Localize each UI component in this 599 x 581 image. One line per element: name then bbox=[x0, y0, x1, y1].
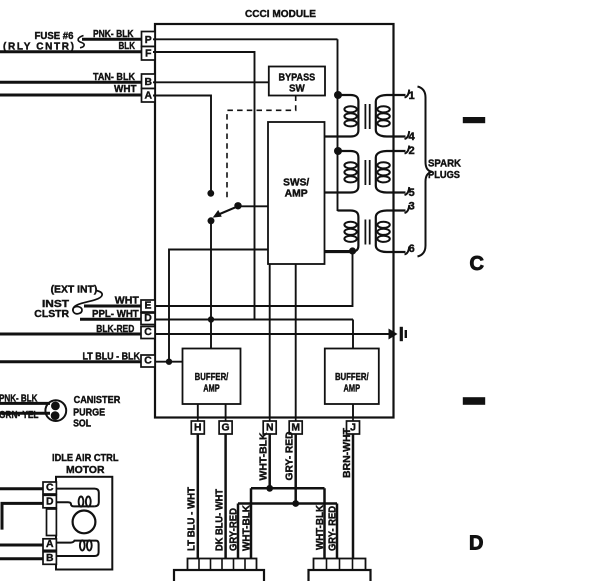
svg-text:BYPASS: BYPASS bbox=[279, 73, 316, 84]
svg-text:5: 5 bbox=[409, 187, 415, 199]
svg-text:GRY- RED: GRY- RED bbox=[327, 506, 338, 551]
svg-text:WHT-BLK: WHT-BLK bbox=[242, 505, 253, 551]
svg-text:2: 2 bbox=[409, 145, 415, 157]
svg-text:C: C bbox=[470, 253, 484, 275]
svg-text:IDLE AIR CTRL: IDLE AIR CTRL bbox=[52, 453, 119, 464]
svg-text:LT BLU - BLK: LT BLU - BLK bbox=[83, 352, 141, 363]
svg-text:(EXT INT): (EXT INT) bbox=[51, 285, 98, 296]
svg-text:BUFFER/: BUFFER/ bbox=[335, 372, 369, 383]
svg-text:GRY- RED: GRY- RED bbox=[284, 432, 295, 481]
svg-text:C: C bbox=[144, 356, 152, 367]
svg-text:C: C bbox=[46, 483, 54, 494]
svg-text:CANISTER: CANISTER bbox=[74, 395, 121, 406]
svg-text:GRY-RED: GRY-RED bbox=[228, 508, 239, 551]
svg-text:CCCI MODULE: CCCI MODULE bbox=[245, 9, 316, 20]
svg-text:BUFFER/: BUFFER/ bbox=[195, 372, 229, 383]
svg-text:WHT-BLK: WHT-BLK bbox=[258, 433, 269, 481]
svg-text:BLK-RED: BLK-RED bbox=[96, 324, 134, 335]
svg-text:WHT-BLK: WHT-BLK bbox=[315, 505, 326, 550]
svg-text:E: E bbox=[145, 301, 152, 312]
svg-text:FUSE #6: FUSE #6 bbox=[35, 31, 75, 42]
svg-text:D: D bbox=[469, 532, 483, 554]
svg-text:D: D bbox=[46, 496, 54, 507]
svg-text:F: F bbox=[145, 49, 151, 60]
svg-text:H: H bbox=[194, 423, 202, 434]
svg-text:AMP: AMP bbox=[344, 384, 361, 395]
svg-text:CLSTR: CLSTR bbox=[34, 309, 69, 320]
svg-text:MOTOR: MOTOR bbox=[66, 465, 105, 476]
svg-text:DK BLU- WHT: DK BLU- WHT bbox=[214, 489, 225, 551]
svg-text:GRN- YEL: GRN- YEL bbox=[0, 410, 39, 421]
svg-text:(RLY CNTR): (RLY CNTR) bbox=[3, 42, 74, 53]
svg-text:PURGE: PURGE bbox=[73, 408, 105, 419]
svg-text:A: A bbox=[144, 91, 152, 102]
svg-text:BRN-WHT: BRN-WHT bbox=[342, 428, 353, 478]
svg-text:D: D bbox=[144, 313, 152, 324]
svg-text:3: 3 bbox=[409, 201, 415, 213]
svg-text:1: 1 bbox=[409, 90, 415, 102]
svg-text:P: P bbox=[145, 35, 152, 46]
svg-text:4: 4 bbox=[409, 131, 416, 143]
svg-text:WHT: WHT bbox=[114, 84, 137, 95]
svg-text:BLK: BLK bbox=[119, 41, 136, 52]
svg-text:PLUGS: PLUGS bbox=[428, 170, 460, 181]
svg-text:PNK- BLK: PNK- BLK bbox=[0, 394, 38, 405]
svg-text:AMP: AMP bbox=[203, 384, 220, 395]
svg-text:PPL- WHT: PPL- WHT bbox=[92, 309, 139, 320]
svg-text:SPARK: SPARK bbox=[428, 159, 461, 170]
svg-text:A: A bbox=[46, 539, 54, 550]
svg-text:TAN- BLK: TAN- BLK bbox=[93, 72, 135, 83]
svg-text:B: B bbox=[46, 553, 54, 564]
svg-text:G: G bbox=[222, 423, 230, 434]
svg-text:AMP: AMP bbox=[285, 189, 308, 200]
svg-text:N: N bbox=[266, 423, 274, 434]
svg-text:6: 6 bbox=[409, 243, 415, 255]
svg-text:LT BLU - WHT: LT BLU - WHT bbox=[187, 487, 198, 551]
svg-text:C: C bbox=[144, 327, 152, 338]
svg-text:SW: SW bbox=[289, 84, 306, 95]
svg-text:SOL: SOL bbox=[73, 419, 91, 430]
svg-text:SWS/: SWS/ bbox=[283, 178, 309, 189]
svg-text:WHT: WHT bbox=[115, 296, 139, 307]
svg-text:B: B bbox=[144, 77, 152, 88]
svg-text:PNK- BLK: PNK- BLK bbox=[93, 29, 134, 40]
